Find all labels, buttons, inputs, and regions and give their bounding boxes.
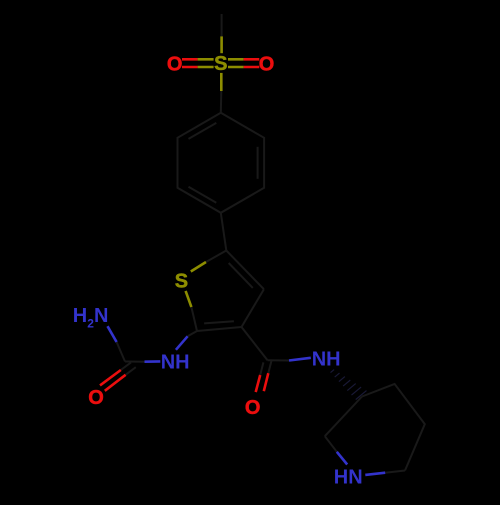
- wire piperidine C3-C4: [325, 397, 362, 437]
- svg-text:HN: HN: [334, 466, 363, 488]
- wire piperidine N-C2 dark half: [385, 471, 405, 473]
- wire urea C=O red halves: [100, 370, 126, 391]
- wire amide C=O red halves: [256, 373, 269, 392]
- wire urea C=O dark halves: [121, 362, 136, 374]
- wire thiophene S-C5 olive half: [191, 262, 206, 272]
- wire thiophene C5-C4: [226, 251, 264, 290]
- svg-text:O: O: [259, 54, 275, 76]
- wire piperidine N-C4 dark half: [325, 436, 337, 452]
- wire thiophene C2 to urea N dark half: [188, 331, 197, 336]
- wire amide C-N blue half: [289, 358, 311, 361]
- wire S-phenyl olive half: [220, 73, 223, 91]
- svg-text:S: S: [214, 53, 227, 75]
- wire methyl C-S upper dark half: [221, 14, 223, 36]
- wire thiophene S-C5 dark half: [206, 251, 226, 263]
- wire methyl C-S lower olive half: [220, 36, 223, 53]
- benzene ring outline: [178, 113, 265, 213]
- wire urea N-C dark half: [125, 361, 145, 363]
- wire thiophene C3-C2: [197, 327, 242, 331]
- svg-text:O: O: [88, 387, 104, 409]
- svg-text:O: O: [167, 54, 183, 76]
- wire urea N-C blue half: [145, 360, 161, 363]
- benzene inner double bond bottom-left: [189, 187, 217, 203]
- wire thiophene C4-C3: [242, 289, 264, 327]
- wire piperidine N-C4 blue half: [337, 452, 347, 465]
- wire S=O right double bond olive halves: [228, 59, 244, 67]
- wire thiophene C2 to urea N blue half: [176, 336, 188, 350]
- wire urea C-NH2 dark half: [117, 342, 125, 362]
- wire thiophene inner double C2=C3: [204, 321, 234, 323]
- wire urea C-NH2 blue half: [108, 326, 117, 342]
- piperidine ring outline dark: [362, 384, 425, 471]
- wire amide C=O dark halves: [260, 361, 271, 375]
- benzene inner double bond right: [257, 147, 259, 179]
- wire phenyl-thiophene link: [221, 213, 227, 251]
- wire amide C-N dark half: [268, 359, 290, 361]
- wire S=O left double bond olive halves: [198, 59, 214, 67]
- wire S=O left double bond red halves: [182, 59, 198, 67]
- wire thiophene inner double C4=C5: [229, 263, 253, 288]
- svg-text:S: S: [175, 271, 188, 293]
- wire hashed wedge N to piperidine C3: [331, 370, 367, 400]
- svg-text:O: O: [245, 397, 261, 419]
- wire thiophene C3 to amide C: [242, 327, 268, 360]
- wire thiophene S-C2 olive half: [186, 291, 192, 307]
- svg-text:NH: NH: [312, 348, 341, 370]
- wire S=O right double bond red halves: [244, 59, 260, 67]
- benzene inner double bond top-left: [189, 123, 217, 139]
- wire piperidine N-C2 blue half: [365, 473, 385, 475]
- wire thiophene S-C2 dark half: [191, 307, 197, 331]
- svg-text:NH: NH: [161, 352, 190, 374]
- wire S-phenyl dark half: [220, 91, 223, 113]
